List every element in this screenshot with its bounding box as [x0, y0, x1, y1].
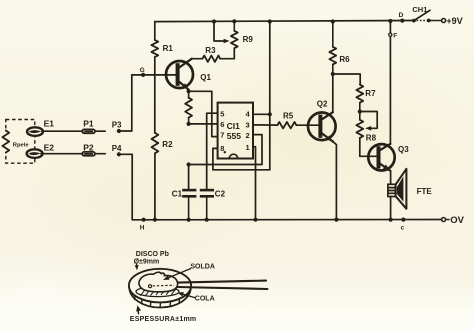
- junction pin1 ground: [253, 218, 257, 222]
- junction Q3 rail: [388, 19, 392, 23]
- wire pin3 to R5: [253, 124, 277, 126]
- wire Q1 collector to R3: [192, 58, 203, 60]
- arrow SOLDA: [167, 269, 191, 279]
- svg-text:P3: P3: [112, 120, 122, 129]
- wire pin1 to ground: [253, 147, 256, 220]
- svg-text:R1: R1: [163, 44, 174, 53]
- resistor R5: [277, 122, 296, 128]
- junction R6 top rail: [331, 19, 335, 23]
- electrode E2: [27, 149, 43, 158]
- svg-text:FTE: FTE: [417, 187, 433, 196]
- wire top +9V rail: [155, 21, 414, 22]
- resistor R1: [151, 40, 158, 57]
- terminal +9V: [442, 19, 446, 23]
- plug P2: [82, 152, 95, 156]
- svg-text:SOLDA: SOLDA: [190, 263, 215, 270]
- svg-text:R6: R6: [339, 55, 350, 64]
- junction R2-ground: [153, 218, 157, 222]
- node P4: [117, 152, 121, 156]
- junction C1 ground: [187, 218, 191, 222]
- wire pin6 link: [189, 123, 218, 125]
- wire Q3 emitter to speaker: [390, 171, 392, 185]
- svg-text:CH1: CH1: [412, 5, 427, 14]
- disc glue hatched ellipse: [136, 287, 179, 297]
- resistor R7: [356, 85, 363, 103]
- svg-text:c: c: [401, 225, 405, 232]
- junction C2 ground: [205, 218, 209, 222]
- svg-text:Rpele: Rpele: [13, 143, 30, 149]
- wire pin2 tie to pin6 node: [189, 135, 262, 165]
- transistor Q2: [308, 113, 336, 141]
- wire pin5 to C2: [207, 113, 218, 189]
- svg-text:COLA: COLA: [195, 296, 215, 303]
- wire R7 feed: [333, 74, 360, 85]
- resistor R3: [203, 56, 221, 62]
- capacitor C1: [182, 189, 196, 192]
- wire P4 to ground rail: [119, 154, 132, 220]
- op-amp U1 CI1 555 body: [218, 103, 253, 159]
- svg-text:4: 4: [246, 110, 251, 119]
- junction R9 wiper: [212, 19, 216, 23]
- svg-text:555: 555: [227, 131, 241, 141]
- wire ground 0V rail: [132, 219, 441, 221]
- wire Q3 collector to rail: [389, 21, 391, 144]
- svg-text:P4: P4: [112, 144, 122, 153]
- disc rim ticks: [134, 296, 136, 300]
- svg-text:C2: C2: [215, 190, 226, 199]
- svg-text:CI1: CI1: [227, 121, 241, 131]
- svg-text:Q2: Q2: [317, 100, 328, 109]
- svg-text:OV: OV: [450, 215, 464, 226]
- wire P1 stub: [95, 130, 105, 132]
- svg-text:R3: R3: [205, 46, 216, 55]
- junction speaker ground: [389, 218, 393, 222]
- svg-text:E1: E1: [44, 118, 55, 128]
- svg-text:5: 5: [220, 110, 224, 119]
- wire speaker to ground: [390, 197, 392, 220]
- junction R6-R7 node: [331, 72, 335, 76]
- solder center point: [149, 285, 152, 288]
- node G: [141, 73, 145, 77]
- speaker FTE: [388, 184, 396, 196]
- svg-text:DISCO Pb: DISCO Pb: [136, 251, 169, 258]
- svg-text:P2: P2: [83, 143, 94, 153]
- wire R8 to Q3 base: [360, 138, 378, 156]
- disc rim: [129, 289, 190, 308]
- svg-text:F: F: [393, 33, 397, 40]
- node H: [142, 218, 146, 222]
- svg-text:G: G: [140, 67, 145, 74]
- svg-text:R2: R2: [162, 140, 173, 149]
- junction pin4: [268, 112, 272, 116]
- wire C1 branch: [188, 165, 190, 189]
- junction pin2/6/C1 node: [187, 162, 191, 166]
- disc outer ellipse: [129, 269, 191, 303]
- transistor Q1: [166, 61, 193, 88]
- junction R7-R8 node: [358, 109, 362, 113]
- wire Q1 base: [132, 74, 176, 76]
- arrow ESPESSURA: [137, 309, 140, 314]
- solder blob: [139, 272, 178, 292]
- wire pin8 wrap to +9V: [213, 148, 270, 169]
- svg-text:Q3: Q3: [398, 145, 409, 154]
- junction R9 top: [232, 19, 236, 23]
- junction +9V rail: [268, 19, 272, 23]
- svg-text:2: 2: [246, 131, 250, 140]
- svg-text:Q1: Q1: [200, 73, 211, 82]
- switch CH1: [412, 19, 416, 23]
- wire lead pair: [178, 281, 266, 283]
- wire R3 to R9 bottom: [220, 48, 234, 59]
- electrode E1: [27, 127, 43, 136]
- wire Q1 emitter to pin7: [189, 91, 218, 136]
- junction Q1 emitter node: [187, 89, 191, 93]
- resistor R4 (unlabelled): [188, 91, 190, 97]
- resistor R2: [152, 133, 159, 154]
- resistor R6: [332, 22, 334, 47]
- svg-text:+9V: +9V: [446, 16, 462, 26]
- svg-text:P1: P1: [83, 119, 94, 129]
- resistor R9 (trimpot): [233, 21, 235, 30]
- arrow COLA: [181, 294, 195, 298]
- node D: [400, 19, 404, 23]
- wire P3 to Q1 base node: [119, 75, 132, 131]
- svg-text:R5: R5: [283, 111, 294, 120]
- resistor Rpele with dashed skin box: [6, 120, 35, 164]
- junction pin6 node: [187, 122, 191, 126]
- svg-text:R7: R7: [365, 89, 376, 98]
- transistor Q3: [368, 144, 394, 170]
- wire P2 stub: [95, 153, 105, 155]
- svg-text:C1: C1: [172, 190, 183, 199]
- svg-text:R9: R9: [243, 35, 254, 44]
- junction Q2 emitter ground: [334, 218, 338, 222]
- svg-text:R8: R8: [366, 134, 377, 143]
- wire +9V column to pin4: [269, 22, 271, 170]
- svg-text:7: 7: [220, 131, 224, 140]
- svg-text:3: 3: [246, 120, 250, 129]
- wire R8 wiper: [360, 112, 377, 129]
- arrow diameter: [136, 264, 138, 267]
- svg-text:1: 1: [246, 143, 250, 152]
- capacitor C2: [200, 189, 214, 192]
- node F: [389, 33, 392, 36]
- svg-text:ESPESSURA±1mm: ESPESSURA±1mm: [130, 316, 197, 323]
- svg-text:Ø±9mm: Ø±9mm: [134, 259, 160, 266]
- resistor R8 (trimpot): [359, 112, 361, 120]
- wire R5 to Q2 base: [296, 124, 318, 126]
- svg-text:8: 8: [220, 144, 224, 153]
- wire R1-R2 column: [154, 22, 156, 40]
- wire Q2 emitter to ground: [333, 142, 336, 220]
- svg-text:6: 6: [220, 120, 224, 129]
- wire R9 wiper from rail: [214, 22, 224, 42]
- svg-text:H: H: [140, 224, 145, 231]
- svg-text:D: D: [399, 12, 404, 19]
- terminal 0V: [442, 218, 446, 222]
- wire Q2 collector column: [332, 74, 334, 112]
- wire E1 to P1: [42, 130, 83, 132]
- wire E2 to P2: [41, 153, 83, 155]
- svg-text:E2: E2: [44, 142, 55, 152]
- plug P1: [82, 129, 95, 133]
- node P3: [117, 129, 121, 133]
- wire pin4 link: [253, 113, 270, 115]
- node C: [401, 218, 405, 222]
